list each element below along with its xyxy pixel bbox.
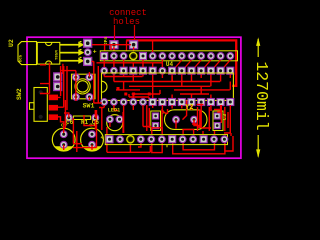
svg-text:DC5: DC5 — [20, 54, 24, 62]
capacitor C2 — [151, 111, 161, 131]
wire leader lines to connect holes — [115, 25, 135, 41]
node JP6 pad column — [84, 39, 92, 47]
svg-text:LED1: LED1 — [108, 107, 120, 113]
header JP2 pads — [106, 136, 113, 143]
IC U4 body — [102, 73, 234, 100]
LED1 — [107, 115, 123, 131]
wire U4 internal traces — [97, 63, 231, 99]
resistor R1 — [73, 116, 90, 120]
capacitor C3 — [213, 111, 223, 131]
button SW1 — [72, 74, 96, 99]
svg-text:+: + — [93, 49, 97, 56]
node JP3 pads — [54, 73, 62, 81]
arrows from jack to pads — [60, 41, 84, 64]
capacitor C5 — [81, 122, 104, 151]
svg-text:T85M: T85M — [56, 50, 60, 60]
switch SW2 smd pads — [49, 95, 58, 120]
svg-text:1270mil: 1270mil — [252, 61, 271, 130]
wire header diagonals — [104, 60, 230, 68]
svg-text:4: 4 — [101, 135, 104, 141]
board outline — [27, 37, 241, 158]
header JP1 pads — [101, 53, 108, 60]
wire top-left traces — [92, 45, 134, 51]
header JP1 outline — [100, 51, 237, 61]
svg-text:C3: C3 — [221, 113, 228, 120]
wire mid-left traces — [40, 61, 102, 152]
svg-text:SW2: SW2 — [16, 88, 23, 100]
svg-text:C6: C6 — [66, 119, 74, 126]
svg-text:U2: U2 — [8, 39, 15, 47]
svg-text:Y2: Y2 — [185, 104, 193, 112]
dimension arrow 1270mil — [257, 39, 259, 157]
IC U4 top pads — [101, 67, 108, 74]
connector J6 DC jack outline — [18, 42, 60, 65]
connect hole pads — [110, 41, 118, 49]
svg-text:holes: holes — [113, 17, 140, 27]
header JP2 bottom outline — [105, 135, 227, 145]
wire bottom traces — [64, 100, 233, 153]
wire ring stub — [126, 40, 128, 51]
svg-text:R1 C5: R1 C5 — [81, 119, 99, 126]
crystal Y2 — [165, 110, 208, 130]
IC U4 bottom pads — [101, 99, 108, 106]
svg-text:SW1: SW1 — [83, 103, 95, 110]
header JP2 tick — [166, 145, 168, 148]
svg-text:JP4: JP4 — [103, 37, 109, 45]
capacitor C6 — [52, 122, 75, 151]
wire ground ring — [126, 40, 236, 85]
switch SW2 body — [30, 88, 48, 122]
